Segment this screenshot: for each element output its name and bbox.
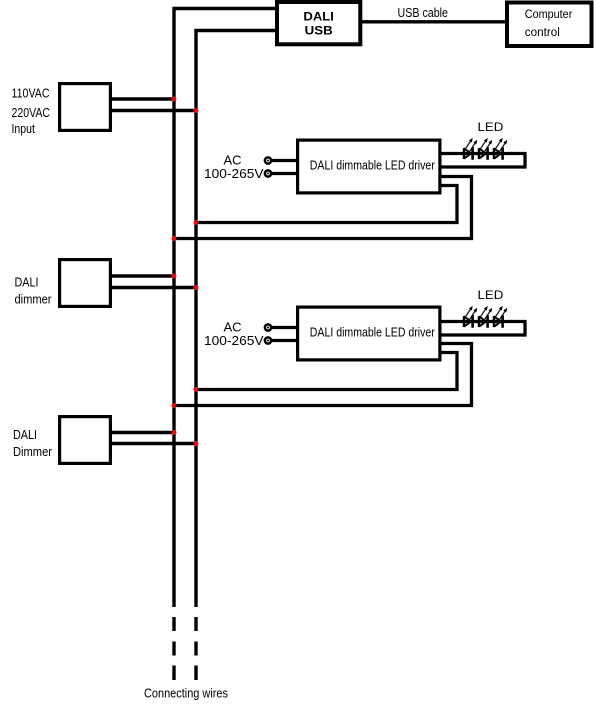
junction: dimmer 1 on bus wire 2 (194, 285, 199, 290)
wire: dimmer 1 to bus wire 1 (110, 274, 176, 277)
svg-text:Computer: Computer (525, 7, 573, 21)
LED diode D22 (479, 306, 492, 328)
wire: driver 1 DALI output to bus wire 2 (194, 186, 457, 223)
junction: mains on bus wire 2 (194, 108, 199, 113)
DALI dimmer 1 box (60, 260, 111, 307)
label: DALI Dimmer (13, 427, 53, 459)
wire: LED string loop of driver 2 (440, 322, 525, 336)
DALI dimmable LED driver 2 box (298, 307, 440, 360)
svg-text:220VAC: 220VAC (12, 105, 51, 120)
computer control box (507, 3, 592, 47)
wire: dashed continuation of bus wire 2 (194, 617, 197, 680)
svg-text:DALI: DALI (303, 9, 334, 23)
label: 110VAC 220VAC Input (12, 85, 51, 135)
svg-text:AC: AC (224, 320, 242, 334)
label: AC 100-265V input 2 (204, 320, 264, 348)
svg-text:USB cable: USB cable (398, 5, 449, 20)
svg-text:dimmer: dimmer (15, 291, 53, 306)
wire: mains box to bus wire 2 (110, 109, 198, 112)
junction: dimmer 2 on bus wire 1 (172, 430, 177, 435)
AC input terminal 1 of driver 2 (265, 324, 298, 330)
wire: dimmer 2 to bus wire 1 (110, 431, 176, 434)
junction: driver 2 output on bus wire 1 (172, 403, 177, 408)
LED diode D12 (479, 138, 492, 160)
svg-text:110VAC: 110VAC (12, 85, 50, 100)
svg-text:DALI: DALI (13, 427, 37, 442)
AC mains input box (60, 84, 111, 131)
LED diode D21 (464, 306, 477, 328)
wire: dashed continuation of bus wire 1 (172, 617, 175, 680)
AC input terminal 2 of driver 2 (265, 337, 298, 343)
DALI USB interface box (277, 2, 360, 44)
LED diode D11 (464, 138, 477, 160)
DALI dimmable LED driver 1 box (298, 140, 440, 193)
wire: driver 2 DALI output to bus wire 1 (172, 344, 471, 406)
svg-text:Dimmer: Dimmer (13, 444, 53, 459)
wire: dimmer 1 to bus wire 2 (110, 286, 198, 289)
label: DALI dimmer (15, 274, 53, 306)
wire: USB cable (360, 20, 507, 23)
wire: DALI bus wire 2 (from DALI USB, vertical trunk) (196, 31, 278, 608)
svg-text:100-265V: 100-265V (204, 334, 264, 348)
svg-text:DALI dimmable LED driver: DALI dimmable LED driver (310, 325, 435, 339)
svg-text:Connecting wires: Connecting wires (144, 685, 228, 700)
LED diode D13 (494, 138, 507, 160)
wire: driver 2 DALI output to bus wire 2 (194, 353, 457, 390)
wire: driver 1 DALI output to bus wire 1 (172, 177, 471, 239)
LED diode D23 (494, 306, 507, 328)
label: AC 100-265V input 1 (204, 153, 264, 181)
junction: driver 2 output on bus wire 2 (194, 387, 199, 392)
wire: LED string loop of driver 1 (440, 154, 525, 168)
AC input terminal 2 of driver 1 (265, 170, 298, 176)
wire: DALI bus wire 1 (from DALI USB, vertical trunk) (174, 9, 278, 608)
svg-text:LED: LED (478, 120, 504, 134)
wire: mains box to bus wire 1 (110, 97, 176, 100)
svg-text:100-265V: 100-265V (204, 167, 264, 181)
svg-text:USB: USB (305, 24, 333, 38)
junction: mains on bus wire 1 (172, 97, 177, 102)
DALI Dimmer 2 box (60, 417, 111, 464)
svg-text:control: control (525, 25, 560, 39)
junction: driver 1 output on bus wire 1 (172, 236, 177, 241)
svg-text:Input: Input (12, 121, 36, 136)
svg-text:LED: LED (478, 288, 504, 302)
AC input terminal 1 of driver 1 (265, 157, 298, 163)
wire: dimmer 2 to bus wire 2 (110, 442, 198, 445)
svg-text:DALI dimmable LED driver: DALI dimmable LED driver (310, 158, 435, 172)
svg-text:DALI: DALI (15, 274, 39, 289)
junction: dimmer 1 on bus wire 1 (172, 274, 177, 279)
svg-text:AC: AC (224, 153, 242, 167)
junction: dimmer 2 on bus wire 2 (194, 441, 199, 446)
junction: driver 1 output on bus wire 2 (194, 220, 199, 225)
